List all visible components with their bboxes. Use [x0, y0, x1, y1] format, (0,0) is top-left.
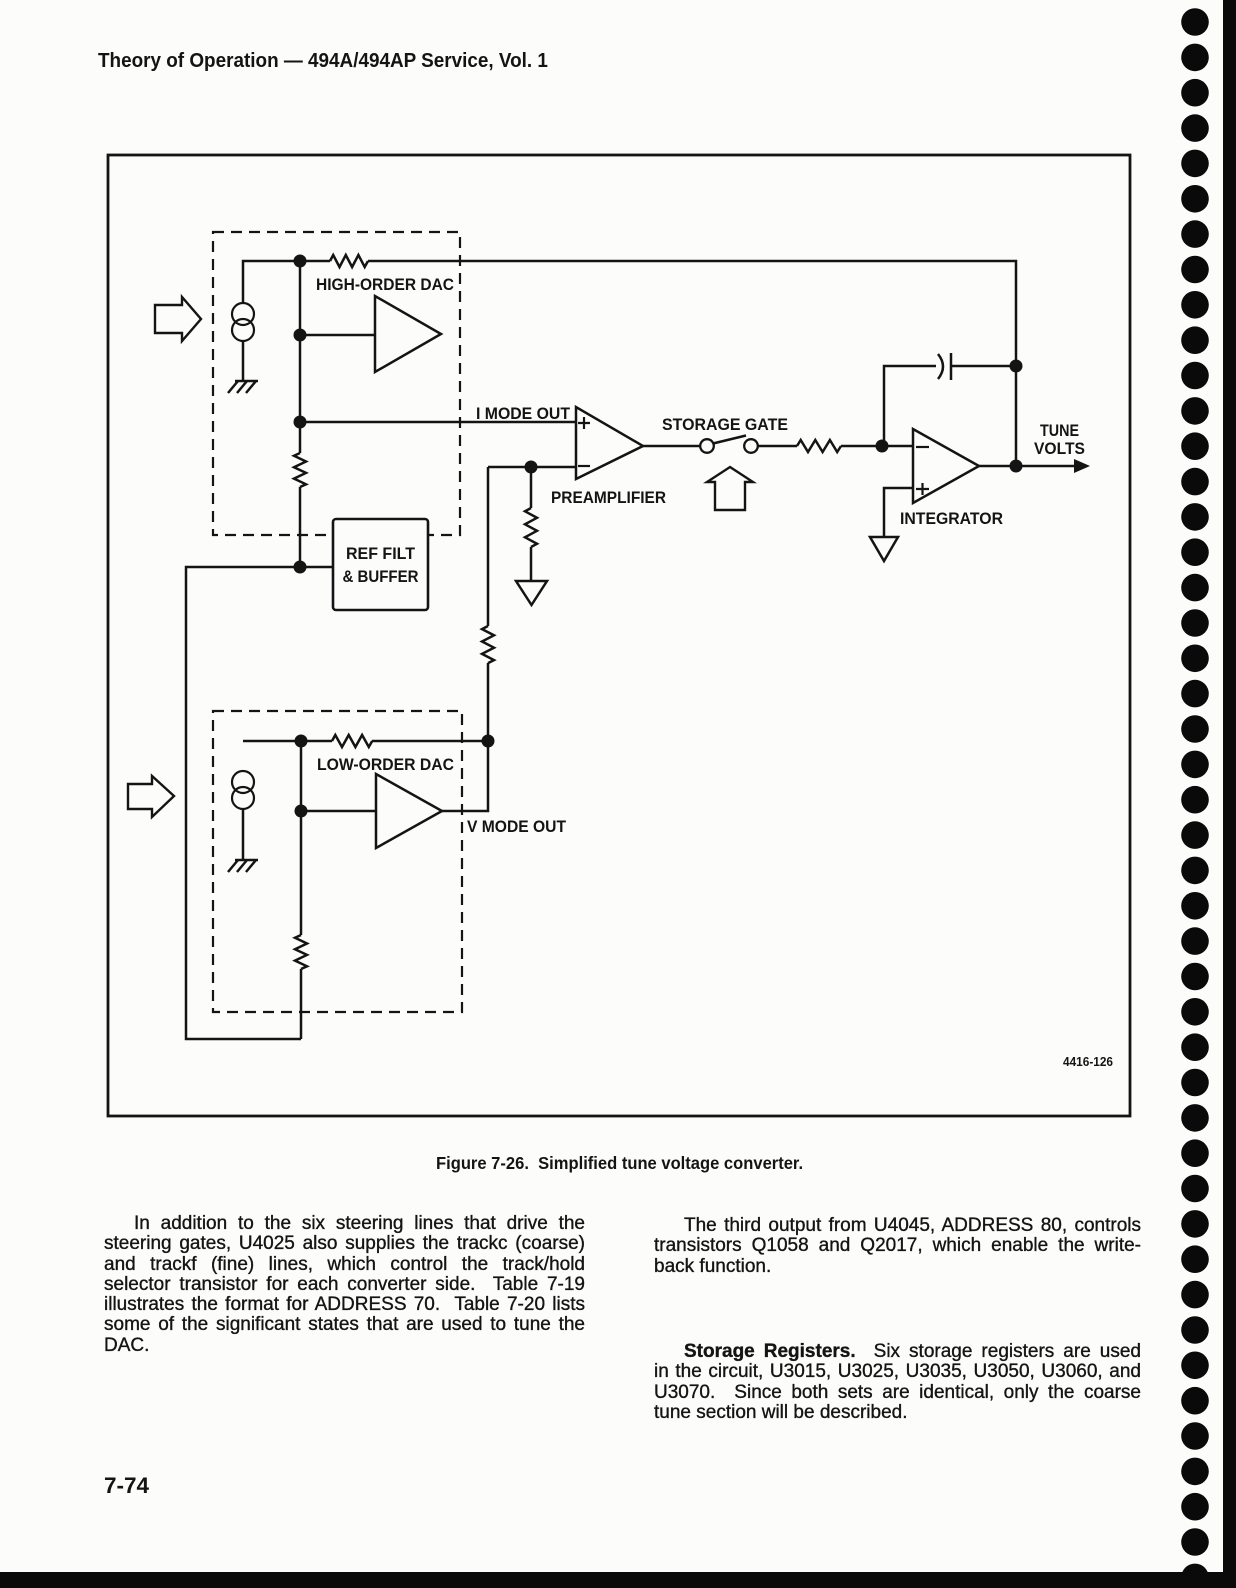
svg-text:VOLTS: VOLTS: [1034, 440, 1085, 458]
svg-text:LOW-ORDER DAC: LOW-ORDER DAC: [317, 755, 454, 774]
svg-text:REF FILT: REF FILT: [346, 545, 415, 563]
svg-text:4416-126: 4416-126: [1063, 1055, 1113, 1069]
svg-text:PREAMPLIFIER: PREAMPLIFIER: [551, 488, 666, 507]
svg-text:V MODE OUT: V MODE OUT: [467, 817, 567, 836]
svg-text:& BUFFER: & BUFFER: [343, 568, 419, 586]
svg-text:HIGH-ORDER DAC: HIGH-ORDER DAC: [316, 275, 454, 294]
svg-text:STORAGE GATE: STORAGE GATE: [662, 415, 788, 434]
svg-text:TUNE: TUNE: [1040, 422, 1079, 440]
svg-text:I MODE OUT: I MODE OUT: [476, 404, 571, 423]
svg-text:INTEGRATOR: INTEGRATOR: [900, 509, 1003, 528]
